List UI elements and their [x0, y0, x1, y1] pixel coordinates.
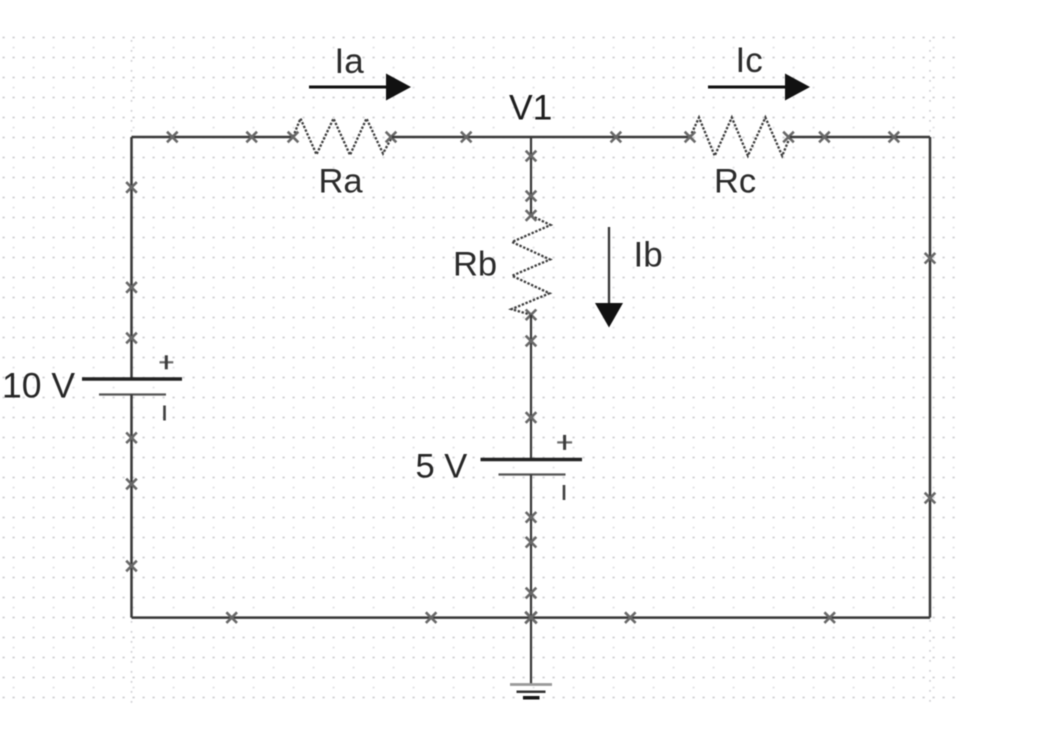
wire left edge lower [130, 395, 133, 618]
battery V2 10V plates [82, 377, 182, 380]
current arrow Ib [595, 227, 623, 328]
svg-text:V1: V1 [509, 88, 552, 128]
ground symbol [510, 685, 552, 698]
svg-text:5 V: 5 V [416, 448, 468, 486]
svg-text:10 V: 10 V [2, 366, 75, 406]
wire left edge upper [130, 137, 133, 379]
battery 10V plus sign [160, 361, 174, 363]
wire right edge [929, 137, 932, 618]
battery 10V minus tick [163, 406, 166, 421]
svg-text:Ib: Ib [634, 236, 663, 275]
battery V3 5V plates [481, 458, 583, 461]
current arrow Ia [309, 74, 411, 101]
wire top-right segment [790, 136, 930, 139]
node x-marks on top-left wire [167, 132, 257, 143]
wire top-left segment [132, 136, 294, 139]
dotted guide column above top-left corner [131, 40, 133, 136]
battery 5V plus sign [557, 441, 572, 443]
current arrow Ic [708, 74, 810, 101]
svg-text:Ia: Ia [335, 42, 365, 81]
resistor Rb [512, 216, 551, 315]
dotted guide row right of bottom-right corner [933, 617, 956, 619]
dotted guide column below bottom-right corner [929, 620, 931, 706]
wire top-middle segment [392, 136, 690, 139]
wire middle branch upper [530, 137, 532, 216]
svg-text:Ra: Ra [319, 163, 364, 201]
resistor Ra [293, 119, 392, 156]
battery 5V minus tick [563, 485, 566, 500]
svg-text:Ic: Ic [736, 41, 763, 80]
junction node at bottom wire [525, 612, 537, 624]
wire middle branch between Rb and 5V [530, 315, 532, 460]
wire middle branch lower [530, 475, 532, 685]
wire bottom edge [132, 616, 931, 619]
dotted guide column below bottom-left corner [131, 621, 133, 706]
svg-text:Rb: Rb [453, 246, 497, 284]
svg-text:Rc: Rc [714, 163, 756, 201]
dotted guide column above top-right corner [929, 40, 931, 136]
resistor Rc [690, 118, 790, 156]
